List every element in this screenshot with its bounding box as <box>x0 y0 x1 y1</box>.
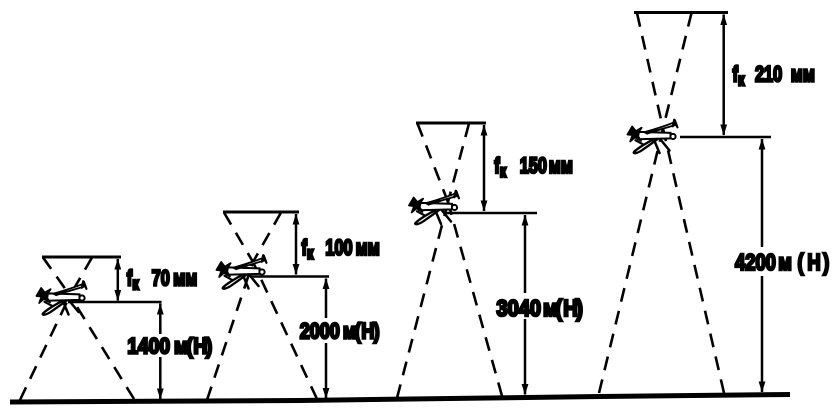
top line G2 <box>223 211 299 214</box>
ray upper-left G4 <box>637 13 663 129</box>
ray lower-right G2 <box>253 262 317 399</box>
level line G2 <box>250 275 329 278</box>
svg-text:fк70мм: fк70мм <box>127 266 197 294</box>
ray lower-left G1 <box>20 296 70 401</box>
ray lower-right G4 <box>663 129 724 394</box>
ray lower-left G4 <box>599 129 663 394</box>
svg-text:2000м(Н): 2000м(Н) <box>300 320 380 344</box>
ray upper-right G1 <box>70 258 92 296</box>
ray upper-right G4 <box>663 13 692 129</box>
airplane 3 <box>409 191 459 225</box>
svg-text:3040м(Н): 3040м(Н) <box>497 295 583 322</box>
svg-text:fк150мм: fк150мм <box>494 154 573 182</box>
svg-text:4200м(Н): 4200м(Н) <box>735 250 829 275</box>
focal arrow G2 <box>295 214 298 275</box>
focal arrow G4 <box>722 15 725 136</box>
top line G3 <box>416 122 486 125</box>
ray upper-right G3 <box>448 124 469 203</box>
ray lower-right G1 <box>70 296 134 400</box>
level line G1 <box>68 301 162 304</box>
level line G3 <box>445 212 537 215</box>
airplane 2 <box>217 255 267 289</box>
svg-text:fк100мм: fк100мм <box>302 236 380 264</box>
ray lower-right G3 <box>448 202 502 396</box>
airplane 4 <box>628 120 678 154</box>
ray upper-left G3 <box>418 124 449 203</box>
height arrow G1 <box>159 304 162 400</box>
focal arrow G3 <box>483 125 486 211</box>
focal arrow G1 <box>117 259 120 301</box>
airplane 1 <box>37 281 87 315</box>
level line G4 <box>680 136 771 139</box>
svg-text:fк210мм: fк210мм <box>733 62 815 90</box>
top line G1 <box>42 256 121 259</box>
ray upper-left G2 <box>224 213 253 263</box>
svg-text:1400м(Н): 1400м(Н) <box>127 334 212 359</box>
height arrow G3 <box>524 215 527 395</box>
height arrow G2 <box>325 279 328 399</box>
height arrow G4 <box>761 139 764 392</box>
ray lower-left G3 <box>397 202 448 398</box>
ground <box>10 395 790 403</box>
ray upper-left G1 <box>43 258 70 296</box>
top line G4 <box>634 11 728 14</box>
ray lower-left G2 <box>207 262 253 400</box>
ray upper-right G2 <box>253 213 281 263</box>
